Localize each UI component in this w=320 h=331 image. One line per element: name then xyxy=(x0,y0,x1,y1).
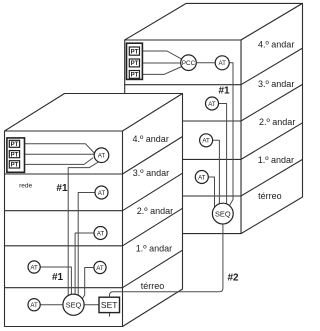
svg-text:PT: PT xyxy=(131,49,139,55)
svg-text:AT: AT xyxy=(98,190,106,197)
svg-text:térreo: térreo xyxy=(258,191,282,201)
svg-text:#1: #1 xyxy=(219,86,231,97)
svg-text:4.º andar: 4.º andar xyxy=(133,134,169,144)
svg-text:4.º andar: 4.º andar xyxy=(258,39,294,49)
svg-text:AT: AT xyxy=(98,153,106,160)
svg-text:AT: AT xyxy=(30,302,38,309)
svg-text:SET: SET xyxy=(101,300,118,310)
svg-text:AT: AT xyxy=(208,101,216,108)
svg-text:2.º andar: 2.º andar xyxy=(137,206,173,216)
svg-text:PT: PT xyxy=(11,152,19,158)
svg-text:térreo: térreo xyxy=(141,281,165,291)
svg-text:1.º andar: 1.º andar xyxy=(258,155,294,165)
svg-text:1.º andar: 1.º andar xyxy=(136,244,172,254)
svg-text:AT: AT xyxy=(202,138,210,145)
svg-text:AT: AT xyxy=(198,174,206,181)
svg-text:PT: PT xyxy=(131,61,139,67)
svg-text:AT: AT xyxy=(96,265,104,272)
svg-text:PT: PT xyxy=(11,163,19,169)
svg-text:3.º andar: 3.º andar xyxy=(258,79,294,89)
svg-text:SEQ: SEQ xyxy=(66,300,82,309)
svg-text:rede: rede xyxy=(19,183,32,190)
svg-text:3.º andar: 3.º andar xyxy=(133,168,169,178)
svg-text:AT: AT xyxy=(30,264,38,271)
svg-text:SEQ: SEQ xyxy=(215,209,231,218)
svg-text:PCC: PCC xyxy=(182,60,196,67)
svg-text:#1: #1 xyxy=(52,272,64,283)
svg-text:2.º andar: 2.º andar xyxy=(259,117,295,127)
svg-text:AT: AT xyxy=(97,230,105,237)
svg-text:#2: #2 xyxy=(228,273,240,284)
svg-text:AT: AT xyxy=(218,60,226,67)
svg-text:#1: #1 xyxy=(56,183,68,194)
svg-text:PT: PT xyxy=(131,73,139,79)
svg-text:PT: PT xyxy=(11,142,19,148)
